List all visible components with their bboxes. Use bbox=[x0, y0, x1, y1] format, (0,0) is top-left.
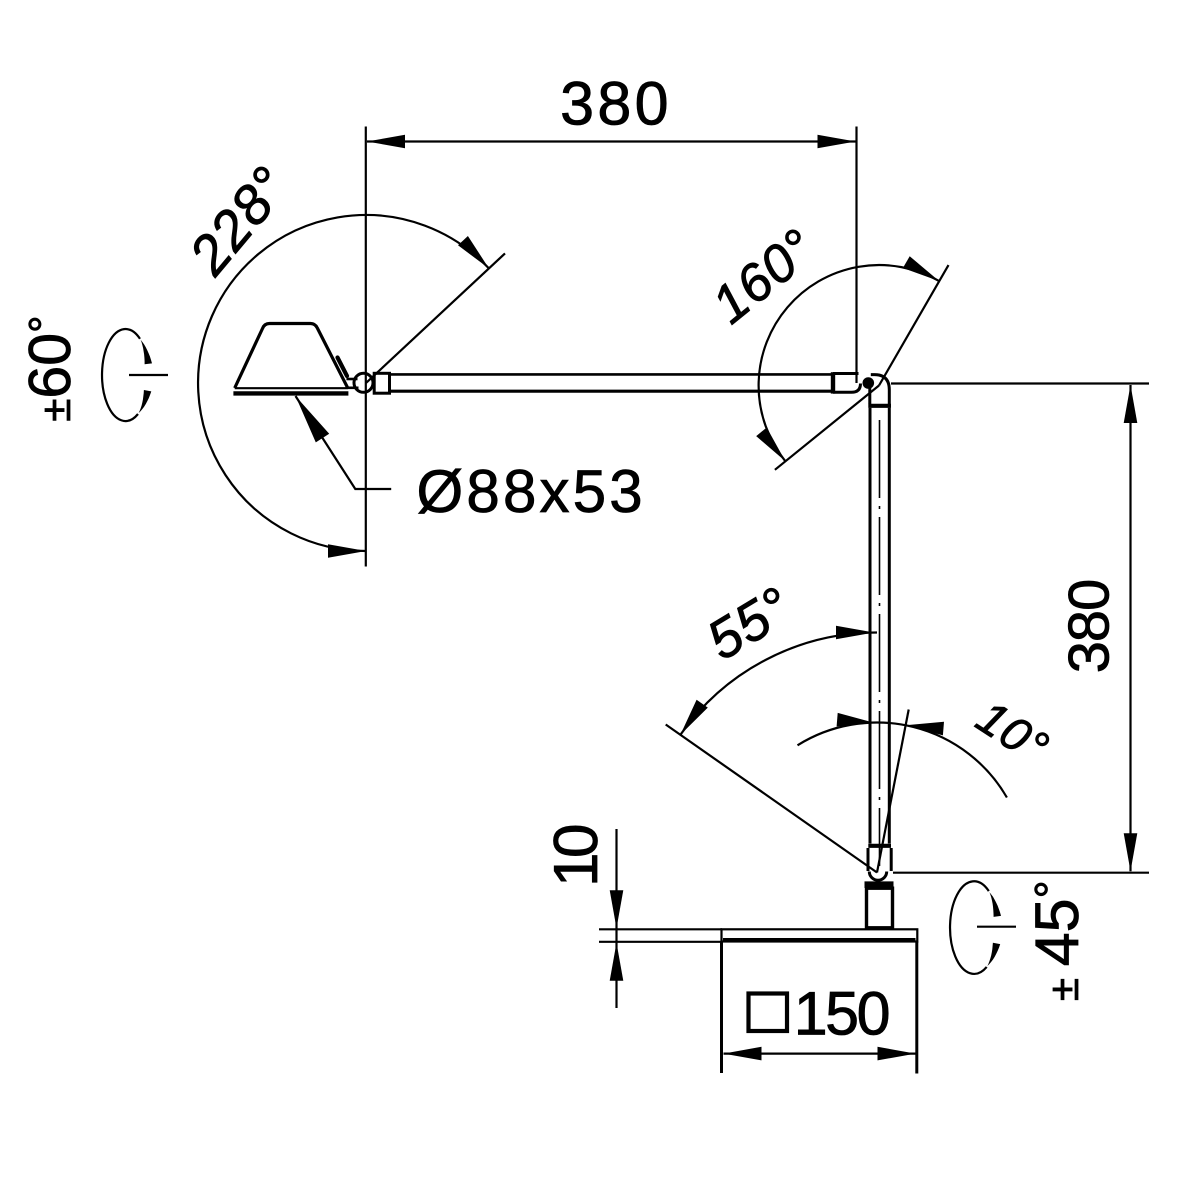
10 deg arc arrowhead at leg bbox=[906, 722, 944, 736]
10 deg arc bbox=[798, 723, 1007, 798]
base body right edge bbox=[915, 942, 918, 1074]
55 deg arc bbox=[680, 633, 877, 735]
svg-text:Ø88x53: Ø88x53 bbox=[417, 458, 646, 525]
elbow knuckle bbox=[863, 377, 875, 389]
160 deg arc bbox=[759, 265, 940, 461]
stem outline bbox=[867, 888, 893, 928]
+/-45 deg ellipse arrowhead top bbox=[989, 892, 1001, 917]
square symbol bbox=[749, 994, 788, 1032]
+/-60 deg ellipse arrowhead bottom bbox=[139, 390, 152, 413]
55 deg arc arrowhead left bbox=[680, 700, 707, 735]
lamp head rim thick line bbox=[233, 391, 348, 395]
dimension 380 right: extension line bottom bbox=[893, 872, 1149, 874]
dimension 10: upper arrowhead bbox=[610, 890, 624, 928]
arm block at ball bbox=[374, 373, 389, 393]
228 deg arc arrowhead top-right bbox=[458, 236, 489, 268]
dimension 10: dimension line bbox=[615, 829, 617, 1008]
dimension 380 top: right arrowhead bbox=[818, 135, 856, 149]
160 deg leg lower-left bbox=[775, 386, 879, 470]
55 deg leg bbox=[666, 725, 877, 873]
vertical arm left edge bbox=[869, 408, 872, 844]
elbow housing top line bbox=[833, 372, 859, 375]
dimension 380 top: extension line left bbox=[365, 127, 367, 567]
dimension 380 top: dimension line bbox=[367, 140, 856, 142]
dimension 150: right arrowhead bbox=[878, 1047, 916, 1061]
228 deg leg (diagonal line) bbox=[366, 253, 505, 383]
dimension 10: extension line top bbox=[599, 928, 722, 930]
ankle housing sides bbox=[867, 848, 870, 871]
base body left edge bbox=[720, 942, 723, 1074]
228 deg arc bbox=[198, 215, 489, 551]
svg-text:10: 10 bbox=[542, 825, 611, 887]
ankle thick band bbox=[865, 881, 894, 888]
10 deg leg bbox=[877, 710, 909, 873]
ankle rounded bottom bbox=[869, 872, 886, 881]
+/-45 deg ellipse arrowhead bottom bbox=[987, 943, 1000, 966]
55 deg arc arrowhead right bbox=[836, 626, 874, 640]
10 deg arc arrowhead at arm bbox=[837, 713, 875, 727]
+/-60 deg axis line bbox=[129, 374, 168, 376]
+/-45 deg axis line bbox=[977, 926, 1016, 928]
+/-45 deg rotation ellipse bbox=[950, 881, 989, 974]
vertical arm left edge upper bbox=[868, 379, 871, 405]
dimension 10: extension line bottom bbox=[599, 941, 722, 943]
svg-text:380: 380 bbox=[1057, 580, 1121, 673]
base top plate thick bottom bbox=[723, 938, 916, 943]
dimension 150: left arrowhead bbox=[724, 1047, 762, 1061]
dimension 380 right: bottom arrowhead bbox=[1124, 833, 1138, 871]
228 deg arc arrowhead bottom bbox=[328, 544, 366, 558]
+/-60 deg rotation ellipse bbox=[102, 329, 140, 421]
160 deg arc arrowhead lower-left bbox=[756, 428, 785, 462]
dimension 380 top: left arrowhead bbox=[367, 135, 405, 149]
lamp head shade outline bbox=[235, 324, 348, 389]
dimension 380 right: top arrowhead bbox=[1124, 385, 1138, 423]
vertical arm right edge bbox=[888, 408, 891, 844]
dimension 10: lower arrowhead bbox=[610, 943, 624, 981]
+/-60 deg ellipse arrowhead top bbox=[141, 340, 152, 365]
ball joint bbox=[354, 373, 373, 392]
vertical arm seam upper bbox=[868, 404, 891, 408]
vertical arm centerline dash-dot bbox=[879, 420, 881, 866]
lamp head hinge tab bbox=[338, 358, 348, 377]
base top plate outline bbox=[722, 929, 918, 941]
dimension 380 right: dimension line bbox=[1129, 385, 1131, 871]
horizontal arm top line bbox=[390, 373, 834, 376]
dimension 150: dimension line bbox=[724, 1052, 916, 1054]
dimension 380 top: extension line right bbox=[855, 127, 857, 384]
horizontal arm end cap bbox=[831, 372, 835, 393]
lamp head rim thin line bbox=[235, 387, 348, 389]
svg-text:150: 150 bbox=[794, 979, 889, 1047]
elbow housing bottom line with rounded corner bbox=[833, 384, 861, 393]
leader arrowhead at head rim bbox=[296, 396, 330, 442]
160 deg arc arrowhead upper-right bbox=[903, 256, 939, 281]
horizontal arm bottom line bbox=[390, 390, 834, 393]
vertical arm seam lower bbox=[868, 844, 891, 848]
leader line bbox=[296, 396, 392, 489]
lamp head neck top line bbox=[346, 378, 357, 381]
vertical arm top rounded corner bbox=[871, 375, 890, 404]
lamp head neck bottom line bbox=[347, 386, 359, 389]
dimension 380 right: extension line top bbox=[891, 382, 1149, 384]
svg-text:380: 380 bbox=[560, 69, 672, 137]
160 deg leg upper-right bbox=[879, 265, 949, 385]
